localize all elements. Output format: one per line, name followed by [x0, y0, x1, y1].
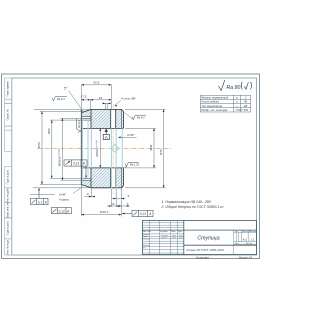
center diamond mark	[111, 144, 119, 152]
svg-text:0,12: 0,12	[140, 212, 146, 216]
bottom-left extension line	[30, 193, 55, 195]
gear parameter table (top right)	[200, 95, 250, 112]
svg-text:Ra 6,3: Ra 6,3	[57, 97, 65, 101]
svg-text:4 фаски: 4 фаски	[59, 197, 70, 201]
svg-text:Ra 80: Ra 80	[227, 85, 241, 91]
svg-text:2×45°: 2×45°	[58, 193, 67, 197]
svg-text:Формат А3: Формат А3	[239, 255, 253, 259]
svg-text:Масштаб: Масштаб	[249, 231, 257, 233]
svg-text:Ø58H8⁺⁰·⁰⁴⁶: Ø58H8⁺⁰·⁰⁴⁶	[58, 148, 62, 166]
rotated diameter labels	[37, 128, 163, 166]
svg-text:Дата: Дата	[178, 231, 182, 233]
svg-text:Взам. инв. №: Взам. инв. №	[7, 202, 10, 217]
svg-text:3×45°: 3×45°	[127, 133, 134, 137]
left margin rotated labels	[7, 80, 10, 255]
svg-text:Сталь 45 ГОСТ 1050-2013: Сталь 45 ГОСТ 1050-2013	[186, 248, 224, 252]
GD&T frame F2	[31, 190, 49, 205]
svg-text:0,1: 0,1	[38, 200, 43, 204]
svg-text:Лист: Лист	[235, 243, 239, 245]
svg-text:Ø75: Ø75	[37, 142, 41, 148]
roughness on left face (rotated)	[77, 119, 81, 133]
title block texts	[143, 230, 257, 249]
left margin box: Перв. примен.	[5, 78, 12, 255]
svg-text:0,12: 0,12	[73, 162, 79, 166]
svg-text:Ø52: Ø52	[47, 128, 51, 134]
dim verticals	[41, 111, 43, 184]
svg-text:1:1: 1:1	[250, 237, 255, 241]
chamfer 3x45 right	[118, 136, 137, 138]
svg-text:Подп.: Подп.	[171, 231, 176, 233]
svg-text:4,2: 4,2	[243, 237, 248, 241]
svg-text:А: А	[105, 135, 108, 140]
svg-text:Масса: Масса	[243, 231, 248, 233]
svg-text:Ra 1,25: Ra 1,25	[130, 163, 140, 167]
svg-text:40±0,2: 40±0,2	[100, 210, 109, 214]
svg-text:Ø48: Ø48	[149, 144, 153, 150]
svg-text:Ra 6,3: Ra 6,3	[77, 120, 81, 128]
svg-text:Ø76: Ø76	[159, 149, 163, 155]
sheet paper	[2, 74, 260, 259]
svg-text:15: 15	[99, 96, 103, 100]
svg-text:4 отв. Ø8: 4 отв. Ø8	[121, 97, 136, 101]
top dimension rows	[81, 85, 111, 111]
part outline	[81, 109, 123, 187]
centerline (horizontal axis)	[37, 147, 172, 149]
extension lines left cascade	[34, 108, 91, 110]
svg-text:42,5: 42,5	[93, 81, 99, 85]
roughness mid-right with leader	[124, 112, 133, 119]
lower recess rim hatch band	[81, 180, 91, 187]
svg-text:Инв. № дубл.: Инв. № дубл.	[7, 187, 10, 202]
svg-text:Листов: Листов	[246, 243, 252, 245]
svg-text:Ø40H7⁺⁰·⁰²⁵: Ø40H7⁺⁰·⁰²⁵	[95, 139, 99, 156]
svg-text:Копировал: Копировал	[196, 255, 209, 259]
upper recess rim hatch band	[81, 110, 91, 117]
svg-text:Т.контр.: Т.контр.	[143, 239, 150, 241]
recess inner lines	[81, 117, 91, 181]
svg-text:№ докум.: № докум.	[160, 230, 168, 233]
svg-text:Утв.: Утв.	[143, 248, 147, 250]
svg-text:Подп. и дата: Подп. и дата	[7, 169, 10, 184]
roughness below bore	[122, 167, 127, 168]
upper hatched section block	[91, 109, 123, 128]
right dims	[125, 108, 166, 110]
inner drawing frame	[12, 78, 257, 255]
svg-text:0,12: 0,12	[59, 209, 65, 213]
roughness top-left	[52, 97, 67, 101]
lower hatched section block	[91, 168, 123, 188]
bolt hole axis (vertical)	[112, 105, 114, 195]
svg-text:Справ. №: Справ. №	[7, 109, 10, 120]
svg-text:ГОСТ 591: ГОСТ 591	[236, 108, 249, 112]
svg-text:Перв. примен.: Перв. примен.	[7, 80, 10, 97]
GD&T frame F4	[122, 210, 153, 216]
svg-text:Ra 6,3: Ra 6,3	[137, 115, 145, 119]
general roughness mark Ra 80 (top right)	[219, 80, 252, 91]
datum A	[104, 129, 108, 132]
svg-text:1. Нормализация НВ 240...280: 1. Нормализация НВ 240...280	[162, 200, 211, 204]
dim arrows	[41, 109, 164, 187]
svg-text:12: 12	[111, 202, 115, 206]
svg-text:Проф. исх. контура: Проф. исх. контура	[201, 108, 228, 112]
svg-text:2. Общие допуски по ГОСТ 30893: 2. Общие допуски по ГОСТ 30893.1-m	[161, 205, 224, 209]
cyan extension bands	[83, 120, 123, 189]
svg-text:Ступица: Ступица	[197, 236, 219, 242]
bottom dimension rows	[81, 185, 129, 217]
svg-text:17,5: 17,5	[81, 95, 87, 99]
bolt hole channel (white)	[111, 109, 116, 128]
svg-text:Инв. № подл.: Инв. № подл.	[7, 239, 10, 255]
svg-text:Лит.: Лит.	[235, 231, 239, 233]
svg-text:Подп. и дата: Подп. и дата	[7, 220, 10, 235]
GD&T frame F3	[51, 208, 71, 214]
GD&T frame F1	[64, 160, 87, 177]
